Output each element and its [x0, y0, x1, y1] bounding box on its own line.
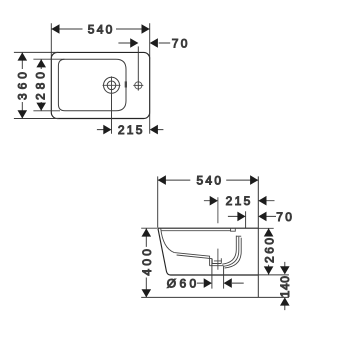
dim 400: extension lines [141, 228, 289, 297]
dim 70 side: arrows [237, 212, 266, 222]
dim 260: line [268, 228, 270, 274]
dim 400: line [145, 228, 147, 297]
bowl floor lower line [177, 255, 213, 259]
svg-text:400: 400 [140, 246, 154, 276]
drain sump walls [210, 256, 224, 266]
front face [158, 228, 171, 275]
dim 215 top: extension lines [112, 94, 150, 134]
svg-text:260: 260 [263, 235, 277, 263]
drain centerline [214, 197, 222, 269]
dim 260: extension lines [258, 228, 289, 275]
dim 360: line [21, 52, 23, 118]
dim 140: stems and line [284, 262, 286, 310]
dim 540 top: arrows [51, 24, 149, 34]
dim 140: arrows [280, 266, 290, 305]
svg-text:215: 215 [118, 123, 145, 137]
underside [171, 274, 259, 276]
svg-text:540: 540 [196, 174, 223, 188]
trap curve inner [222, 236, 236, 265]
deck underside connector [236, 235, 241, 237]
svg-text:360: 360 [16, 68, 30, 100]
trap curve outer [225, 238, 242, 268]
dim Ø60: arrows [204, 278, 232, 288]
back face / wall line [257, 176, 259, 297]
dim 215 side: line [204, 200, 275, 202]
dim 260: arrows [264, 228, 274, 274]
faucet crosshair [103, 76, 121, 93]
rim top surface [158, 227, 258, 229]
svg-text:Ø60: Ø60 [167, 277, 200, 291]
svg-text:280: 280 [34, 68, 48, 100]
dim 360: arrows [18, 52, 28, 118]
dim 540 top: extension lines [51, 23, 149, 58]
dim Ø60: extension lines [212, 259, 224, 289]
svg-text:215: 215 [226, 194, 253, 208]
overflow tick on rim [125, 81, 127, 87]
dim 540 side: line [158, 179, 259, 181]
svg-text:70: 70 [276, 210, 294, 224]
svg-text:540: 540 [88, 22, 115, 36]
dim 215 side: arrows [210, 196, 267, 206]
dim 70 top: extension through fixing hole [137, 46, 139, 90]
dim 280: line [40, 59, 42, 111]
trap curve middle [223, 237, 238, 267]
dim 215 top: arrows [103, 125, 158, 135]
svg-text:70: 70 [172, 36, 190, 50]
bidet outer body (plan) [51, 52, 149, 118]
dim 360: extension lines [14, 52, 59, 118]
dim 540 top: line [51, 28, 149, 30]
faucet hole [104, 77, 120, 93]
bowl floor upper line [174, 253, 210, 257]
dim 540 side: extension line left [157, 176, 159, 227]
bowl interior front wall [161, 228, 175, 252]
dim 70 top: line [118, 42, 170, 44]
basin opening back edge line [162, 230, 231, 232]
fixing hole [135, 82, 142, 89]
dim Ø60: line [197, 282, 244, 284]
fixing hole tick [133, 84, 143, 86]
dim 540 side: arrows [158, 175, 259, 185]
dim 215 top: line [97, 129, 163, 131]
dim 280: extension lines [33, 59, 64, 111]
basin rim (plan) [58, 59, 126, 111]
dim 280: arrows [36, 59, 46, 111]
dim 70 side: line [228, 215, 276, 217]
dim 70 top: arrows [130, 38, 158, 48]
svg-text:140: 140 [278, 275, 292, 297]
dim 400: arrows [142, 228, 152, 297]
dim 70 side: extension line [245, 211, 247, 228]
overflow notch [231, 229, 236, 232]
